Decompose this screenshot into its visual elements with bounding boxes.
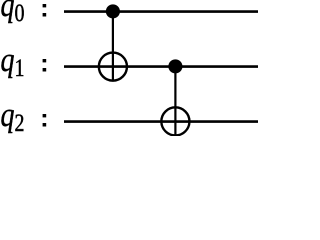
- vertical connector CX1 (q0 to q1): [112, 12, 114, 82]
- control dot CX2 on q1: [168, 59, 182, 73]
- colon for q2: [43, 114, 47, 117]
- svg-text:q: q: [1, 0, 15, 24]
- svg-text:1: 1: [15, 55, 25, 82]
- wire q2: [64, 120, 258, 123]
- svg-text:q: q: [1, 97, 15, 134]
- vertical connector CX2 (q1 to q2): [174, 67, 176, 136]
- CNOT target CX2 on q2: [161, 107, 189, 135]
- CNOT target CX1 on q1: [99, 53, 127, 81]
- svg-text:q: q: [1, 42, 15, 79]
- colon for q1: [43, 59, 47, 62]
- wire q0: [64, 10, 258, 13]
- control dot CX1 on q0: [106, 4, 120, 18]
- wire q1: [64, 65, 258, 68]
- svg-text:2: 2: [15, 110, 25, 136]
- colon for q0: [43, 4, 47, 7]
- svg-text:0: 0: [15, 0, 25, 27]
